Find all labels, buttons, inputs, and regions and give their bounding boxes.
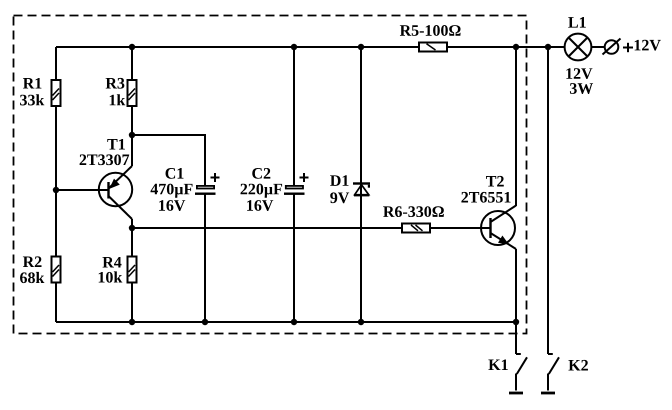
label +12V — [635, 40, 661, 51]
label K2 — [568, 360, 587, 371]
label R1 — [23, 78, 41, 89]
label T1 — [107, 139, 125, 150]
wire: C2 branch — [293, 47, 295, 322]
wire: R4 branch — [131, 228, 133, 322]
label D1 voltage — [330, 192, 349, 203]
label K1 — [488, 359, 507, 370]
resistor R3 — [128, 80, 137, 106]
capacitor C1 — [194, 173, 220, 195]
label C2 voltage — [247, 200, 273, 211]
resistor R4 — [128, 257, 137, 283]
label C1 value — [151, 184, 193, 198]
wire: D1 branch — [360, 47, 362, 322]
label R3 — [106, 78, 125, 89]
resistor R1 — [52, 80, 61, 106]
label R6 value — [383, 206, 444, 217]
label R1 value — [20, 94, 44, 105]
label C2 value — [241, 184, 283, 198]
node top bus / K2 — [545, 44, 551, 50]
label C1 voltage — [159, 200, 185, 211]
label R2 value — [20, 272, 44, 283]
label +12V plus sign — [623, 43, 633, 52]
label T2 — [486, 176, 504, 187]
node bottom bus / C1 — [202, 319, 208, 325]
wire: left branch R1/R2 — [55, 47, 57, 322]
transistor T1 — [99, 135, 132, 228]
switch K1 — [509, 354, 527, 393]
node bottom bus / R4 — [129, 319, 135, 325]
wire: bottom ground bus — [56, 321, 516, 323]
label R5 value — [400, 25, 461, 36]
label C2 — [252, 168, 270, 179]
node top bus / T2 collector — [513, 44, 519, 50]
lamp L1 — [565, 34, 592, 61]
node top bus / R3 — [129, 44, 135, 50]
label D1 — [330, 175, 348, 186]
wire: C1 link from T1 emitter node — [132, 135, 205, 322]
label R2 — [23, 256, 42, 267]
label L1 — [568, 17, 586, 28]
zener diode D1 — [353, 182, 370, 195]
wire: K1 branch — [515, 322, 517, 354]
node bottom bus / D1 — [358, 319, 364, 325]
wire: R3 branch — [131, 47, 133, 135]
transistor T2 — [481, 47, 516, 322]
label L1 power — [570, 83, 593, 94]
node T1 base / divider — [53, 187, 59, 193]
label R4 — [103, 257, 122, 268]
wire: T1 base — [56, 189, 108, 191]
label T2 type — [461, 192, 510, 203]
terminal +12V — [603, 39, 621, 55]
label R3 value — [110, 94, 126, 105]
node top bus / C2 — [291, 44, 297, 50]
node T1 collector / R4 / R6 — [129, 225, 135, 231]
wire: top supply bus — [56, 46, 604, 48]
label L1 voltage — [566, 68, 592, 79]
label C1 — [166, 168, 184, 179]
wire: K2 branch — [547, 47, 549, 354]
switch K2 — [541, 354, 559, 393]
resistor R6 — [402, 224, 430, 233]
node T1 emitter / R3 / C1 — [129, 132, 135, 138]
node top bus / D1 — [358, 44, 364, 50]
dashed enclosure border — [14, 16, 527, 334]
node bottom bus / T2 emitter / K1 — [513, 319, 519, 325]
resistor R2 — [52, 257, 61, 283]
wire: base row to R6 and T2 — [132, 227, 490, 229]
resistor R5 — [419, 43, 447, 52]
node bottom bus / C2 — [291, 319, 297, 325]
label R4 value — [99, 271, 123, 282]
capacitor C2 — [283, 173, 309, 195]
label T1 type — [80, 154, 130, 165]
